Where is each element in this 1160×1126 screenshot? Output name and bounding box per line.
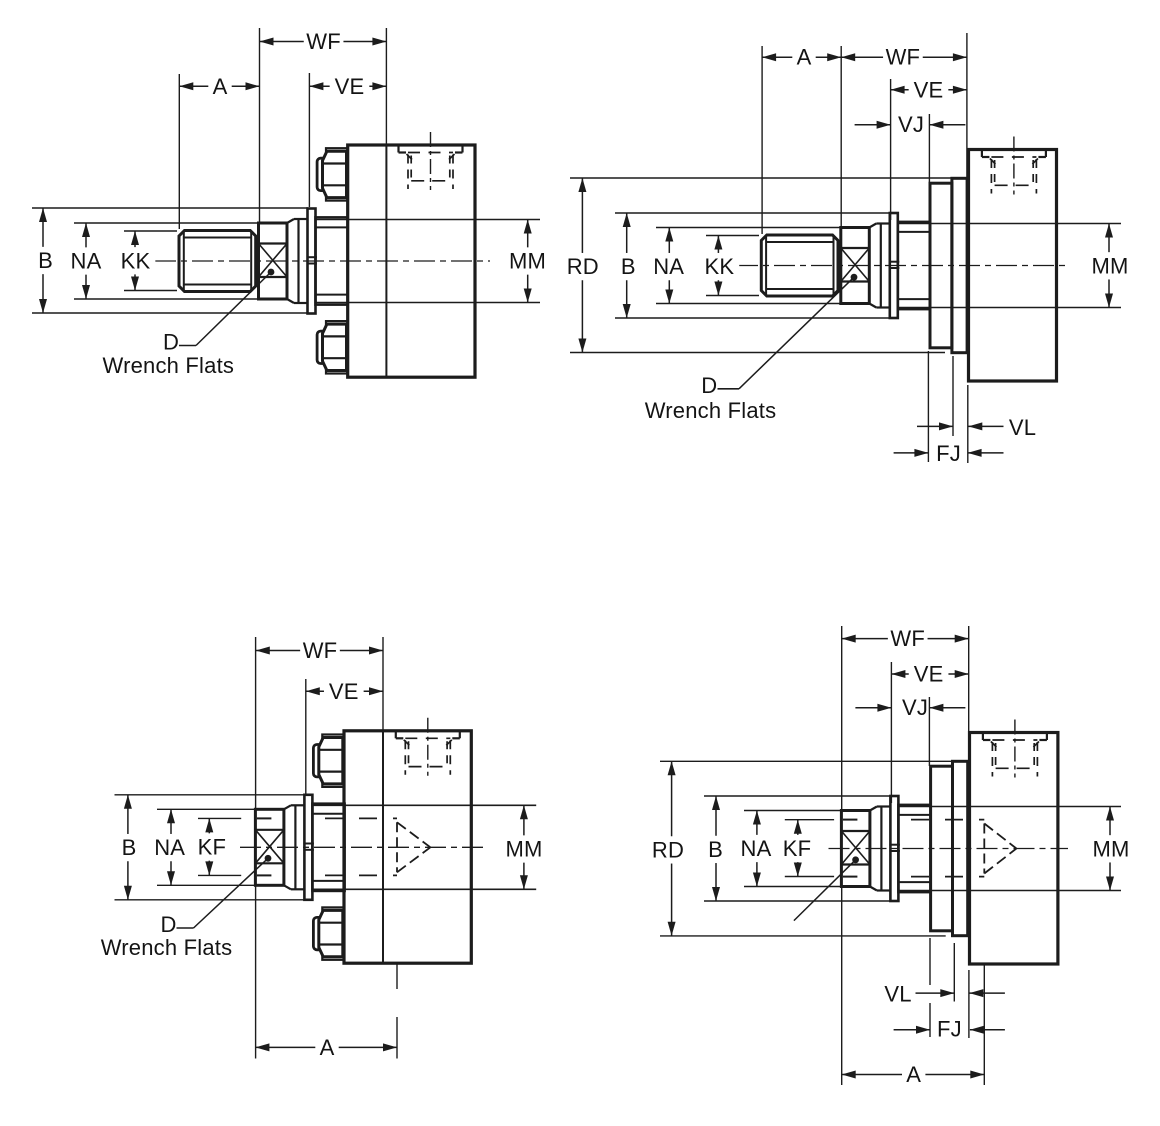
svg-text:B: B [38, 248, 53, 273]
svg-text:A: A [213, 74, 228, 99]
svg-text:Wrench Flats: Wrench Flats [103, 353, 235, 378]
svg-text:MM: MM [509, 249, 546, 274]
svg-text:D: D [163, 330, 179, 355]
svg-text:WF: WF [303, 638, 338, 663]
svg-text:KF: KF [783, 836, 812, 861]
svg-text:A: A [906, 1062, 921, 1087]
svg-text:MM: MM [1091, 253, 1128, 278]
svg-text:NA: NA [154, 835, 185, 860]
svg-text:WF: WF [306, 29, 341, 54]
svg-text:Wrench Flats: Wrench Flats [645, 398, 777, 423]
svg-text:RD: RD [652, 837, 684, 862]
svg-text:KF: KF [198, 835, 227, 860]
svg-text:A: A [797, 45, 812, 70]
svg-text:FJ: FJ [937, 1017, 962, 1042]
svg-text:FJ: FJ [936, 441, 961, 466]
svg-text:NA: NA [741, 836, 772, 861]
svg-text:VE: VE [335, 74, 365, 99]
svg-text:B: B [122, 835, 137, 860]
svg-text:VE: VE [329, 679, 359, 704]
svg-text:VJ: VJ [902, 695, 928, 720]
svg-text:MM: MM [505, 837, 542, 862]
svg-text:Wrench Flats: Wrench Flats [101, 935, 233, 960]
svg-text:KK: KK [121, 248, 151, 273]
svg-text:WF: WF [886, 45, 921, 70]
svg-text:D: D [160, 912, 176, 937]
svg-text:KK: KK [705, 254, 735, 279]
svg-text:B: B [708, 837, 723, 862]
svg-text:A: A [320, 1035, 335, 1060]
svg-text:VE: VE [914, 77, 944, 102]
svg-text:VL: VL [1009, 415, 1036, 440]
svg-text:D: D [701, 373, 717, 398]
svg-text:B: B [621, 254, 636, 279]
svg-text:NA: NA [71, 249, 102, 274]
svg-text:VL: VL [884, 981, 911, 1006]
svg-text:NA: NA [653, 254, 684, 279]
svg-text:RD: RD [567, 254, 599, 279]
svg-text:VE: VE [914, 662, 944, 687]
svg-text:VJ: VJ [898, 112, 924, 137]
svg-text:MM: MM [1092, 836, 1129, 861]
svg-text:WF: WF [890, 626, 925, 651]
